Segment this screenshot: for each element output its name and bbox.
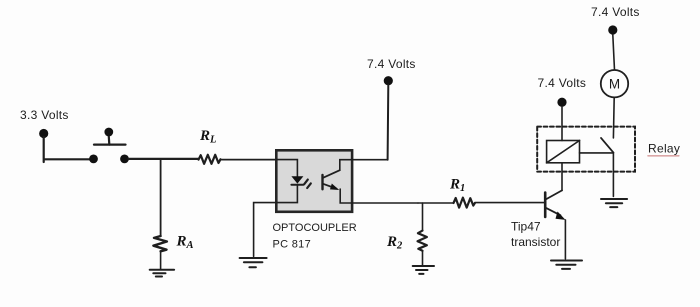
- wire: 7.4V to relay coil: [561, 107, 563, 141]
- wire: contact junction to ground: [612, 153, 614, 197]
- wire: Q1 collector to relay coil: [561, 163, 563, 190]
- wire: node A down to RA: [160, 159, 162, 235]
- svg-text:OPTOCOUPLER: OPTOCOUPLER: [273, 222, 357, 234]
- svg-text:7.4 Volts: 7.4 Volts: [538, 76, 587, 90]
- wire: U1 pin2 cathode to ground: [254, 185, 298, 256]
- relay coil: [547, 141, 580, 163]
- resistor R2: [418, 231, 427, 251]
- wire: 3.3V terminal down and right to switch: [44, 137, 90, 162]
- wire: 7.4V terminal to collector line: [387, 85, 390, 160]
- phototransistor inside U1: [323, 170, 340, 190]
- resistor R1: [454, 198, 475, 208]
- wire: 7.4V to motor: [613, 35, 615, 71]
- wire: R1 to transistor base: [475, 202, 544, 204]
- wire: R2 to ground: [422, 251, 424, 265]
- resistor RA: [153, 236, 167, 251]
- label: Relay (underlined): [648, 142, 680, 156]
- ground: R2: [413, 266, 434, 274]
- terminal dot: 3.3V supply: [39, 129, 48, 138]
- motor M1: [601, 70, 628, 97]
- transistor Q1 Tip47: [545, 190, 565, 220]
- wire: node B to resistor R1: [418, 202, 453, 204]
- ground: optocoupler LED cathode: [240, 258, 267, 267]
- wire: motor to relay contact: [612, 97, 615, 137]
- wire: junction node B down to R2: [422, 203, 424, 231]
- wire: U1 pin1 internal anode lead: [276, 160, 297, 177]
- terminal dot: 7.4V (optocoupler): [384, 76, 393, 85]
- svg-text:3.3 Volts: 3.3 Volts: [20, 108, 69, 122]
- light emission arrows: [304, 180, 311, 188]
- ground: Q1 emitter: [551, 261, 582, 269]
- terminal dot: 7.4V (relay coil): [557, 98, 566, 107]
- svg-text:Tip47: Tip47: [511, 220, 541, 234]
- wire: U1 pin4 collector out to top right: [340, 160, 388, 171]
- svg-text:Relay: Relay: [648, 142, 680, 156]
- wire: U1 pin3 emitter out to bottom right: [340, 189, 418, 203]
- svg-text:transistor: transistor: [511, 235, 560, 249]
- resistor RL: [199, 155, 221, 164]
- wire: RL to optocoupler pin 1: [221, 159, 277, 161]
- LED D1 inside U1: [291, 176, 303, 185]
- svg-text:7.4 Volts: 7.4 Volts: [367, 57, 416, 71]
- terminal dot: 7.4V (motor): [608, 25, 617, 34]
- pushbutton switch S1: [89, 128, 129, 164]
- wire: RA to ground: [160, 251, 162, 268]
- svg-text:PC 817: PC 817: [273, 239, 312, 251]
- relay K1 dashed enclosure: [537, 127, 635, 172]
- optocoupler U1 PC817 body: [276, 150, 352, 212]
- ground: RA: [150, 270, 174, 277]
- wire: coil to contact junction: [580, 152, 614, 154]
- wire: switch to resistor RL (through node A): [129, 158, 199, 160]
- svg-text:7.4 Volts: 7.4 Volts: [591, 5, 640, 19]
- svg-text:M: M: [609, 77, 620, 92]
- relay switch arm (contact): [601, 138, 613, 153]
- ground: relay contact: [601, 199, 627, 207]
- wire: Q1 emitter to ground: [564, 220, 566, 259]
